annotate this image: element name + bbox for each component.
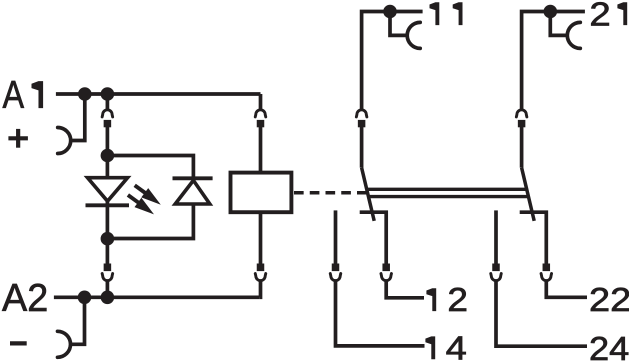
fixed contact bar 12 bbox=[360, 212, 387, 271]
plug-in contact socket arc (above coil) bbox=[255, 110, 266, 117]
plug-in contact pin square (A1 side) bbox=[104, 120, 112, 127]
terminal label 14 bbox=[425, 336, 435, 359]
freewheeling diode D2 cathode bar bbox=[173, 176, 213, 180]
wire from A1 dot down to plus clamp bbox=[71, 94, 85, 141]
svg-text:24: 24 bbox=[589, 330, 629, 362]
plug-in contact pin square (pole 1) bbox=[358, 120, 366, 127]
wire bottom rail of diode branch bbox=[107, 204, 193, 239]
wire stub A1 to plug contact bbox=[106, 94, 110, 110]
node junction dot terminal 11 bbox=[383, 5, 397, 19]
wire plug contact to LED node bbox=[106, 127, 110, 156]
switch blade pole 2 bbox=[522, 168, 535, 221]
node junction dot terminal 21 bbox=[544, 5, 558, 19]
wire A1 rail bbox=[56, 92, 261, 96]
plug-in contact pin square (12) bbox=[382, 264, 390, 272]
plug-in contact pin square (A2 side of LED branch) bbox=[104, 264, 112, 272]
label plus sign bbox=[8, 129, 28, 148]
svg-text:A: A bbox=[3, 74, 25, 117]
wire plug contact to coil top bbox=[259, 127, 263, 173]
LED D1 triangle bbox=[88, 178, 128, 202]
wire coil bottom down to plug contact bbox=[259, 212, 263, 271]
wire 22 down and right to label bbox=[546, 281, 587, 298]
plug-in contact pin square (24) bbox=[492, 264, 500, 272]
node junction dot LED bottom bbox=[101, 232, 115, 246]
node junction dot on A1 rail left bbox=[78, 87, 92, 101]
LED light emission arrow 2 bbox=[128, 195, 154, 214]
switch blade pole 1 bbox=[362, 168, 375, 221]
LED D1 cathode bar bbox=[86, 203, 130, 207]
plug-in contact socket arc (below coil) bbox=[255, 274, 266, 281]
LED light emission arrow 1 bbox=[135, 185, 161, 204]
mechanical linkage double line top bbox=[367, 188, 527, 191]
wire top rail of diode branch bbox=[107, 156, 193, 179]
LED D1 cathode wire bbox=[106, 201, 110, 239]
plug-in contact pin square (14) bbox=[332, 264, 340, 272]
plug-in contact socket arc (24) bbox=[491, 274, 502, 281]
freewheeling diode D2 triangle bbox=[175, 180, 210, 204]
terminal label 11 bbox=[430, 2, 440, 25]
plug-in contact pin square (pole 2) bbox=[518, 120, 526, 127]
clamp symbol at terminal 11 bbox=[407, 22, 420, 48]
plug-in contact socket arc (14) bbox=[330, 274, 341, 281]
node junction dot on A1 rail right bbox=[101, 87, 115, 101]
wire terminal 21 rail bbox=[522, 12, 585, 111]
svg-text:22: 22 bbox=[589, 281, 629, 318]
wire A1 rail corner down to coil plug contact bbox=[259, 94, 263, 110]
dashed actuator link from coil bbox=[294, 191, 367, 195]
fixed contact 24 wire bbox=[494, 210, 498, 271]
fixed contact 14 wire bbox=[334, 210, 338, 271]
plug-in contact socket arc (22) bbox=[541, 274, 552, 281]
LED D1 anode wire bbox=[106, 156, 110, 179]
plug-in contact pin square (22) bbox=[543, 264, 551, 272]
wire from A2 dot down to minus clamp bbox=[71, 297, 85, 344]
plug-in contact pin square (below coil) bbox=[257, 264, 265, 272]
wire 12 down and right to label bbox=[386, 281, 424, 298]
node junction dot LED top bbox=[101, 149, 115, 163]
wire 24 down and right to label bbox=[496, 281, 587, 347]
plug-in contact socket arc (pole 2) bbox=[516, 110, 527, 117]
terminal label 12 bbox=[426, 288, 436, 311]
clamp symbol at terminal 21 bbox=[567, 22, 580, 48]
plug-in contact socket arc (A2 side of LED branch) bbox=[102, 274, 113, 281]
wire LED node down to plug contact bbox=[106, 239, 110, 271]
svg-text:2: 2 bbox=[589, 0, 610, 32]
wire terminal 11 rail bbox=[362, 12, 423, 111]
wire A2 rail bbox=[54, 295, 260, 299]
node junction dot on A2 rail right bbox=[101, 291, 115, 305]
node junction dot on A2 rail left bbox=[78, 291, 92, 305]
wire 14 down and right to label bbox=[336, 281, 425, 346]
relay coil K1 bbox=[231, 173, 292, 213]
wire from 21 dot to clamp bbox=[550, 12, 567, 36]
fixed contact bar 22 bbox=[520, 212, 547, 271]
plug-in contact socket arc (12) bbox=[381, 274, 392, 281]
wire plug contact to blade anchor pole 1 bbox=[360, 127, 364, 168]
label minus sign bbox=[10, 341, 27, 345]
wire plug contact to blade anchor pole 2 bbox=[520, 127, 524, 168]
svg-text:2: 2 bbox=[447, 281, 468, 318]
clamp symbol at minus terminal bbox=[58, 331, 71, 357]
plug-in contact socket arc (A1 side) bbox=[102, 110, 113, 117]
plug-in contact pin square (above coil) bbox=[257, 120, 265, 127]
mechanical linkage double line bottom bbox=[369, 195, 529, 198]
wire from 11 dot to clamp bbox=[390, 12, 407, 36]
svg-text:A2: A2 bbox=[2, 277, 48, 320]
wire plug contact down to A2 rail corner bbox=[258, 281, 262, 298]
plug-in contact socket arc (pole 1) bbox=[356, 110, 367, 117]
clamp symbol at plus terminal bbox=[58, 128, 71, 154]
svg-text:4: 4 bbox=[446, 329, 467, 362]
wire plug contact down to A2 rail bbox=[106, 281, 110, 298]
